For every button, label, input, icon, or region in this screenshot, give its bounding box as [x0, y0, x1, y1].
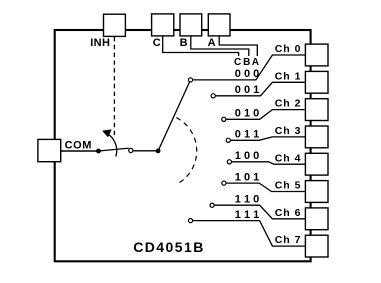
svg-text:A: A: [252, 57, 259, 68]
contact circle channel 7: [188, 219, 192, 223]
contact circle channel 5: [222, 181, 226, 185]
svg-text:1 0 0: 1 0 0: [235, 150, 259, 162]
svg-text:B: B: [180, 37, 188, 49]
wire channel 0: [193, 55, 306, 80]
contact circle channel 2: [222, 117, 226, 121]
svg-text:B: B: [243, 57, 250, 68]
terminal box A: [208, 14, 230, 36]
svg-text:Ch 7: Ch 7: [275, 234, 302, 246]
wire channel 2: [226, 110, 306, 120]
svg-text:Ch 2: Ch 2: [275, 98, 302, 110]
wire channel 7: [193, 221, 306, 247]
svg-text:C: C: [234, 57, 241, 68]
terminal box COM: [38, 139, 61, 161]
contact circle channel 1: [211, 94, 215, 98]
svg-text:0 0 0: 0 0 0: [235, 68, 259, 80]
terminal box channel 2: [305, 99, 328, 121]
svg-text:0 1 0: 0 1 0: [235, 108, 259, 120]
terminal box channel 7: [305, 235, 328, 257]
svg-text:Ch 1: Ch 1: [275, 70, 302, 82]
junction dot COM: [96, 149, 101, 154]
svg-text:INH: INH: [90, 37, 110, 49]
svg-text:Ch 5: Ch 5: [275, 180, 302, 192]
terminal box B: [180, 14, 202, 36]
svg-text:0 1 1: 0 1 1: [235, 129, 259, 141]
terminal box channel 3: [305, 126, 328, 148]
wire channel 4: [232, 162, 306, 164]
INH control dashed line: [113, 37, 115, 136]
IC body outline CD4051B: [55, 30, 311, 261]
svg-text:1 1 1: 1 1 1: [235, 209, 259, 221]
contact circle channel 0: [188, 78, 192, 82]
inhibit actuation arrow arc: [104, 132, 117, 156]
contact circle channel 6: [210, 203, 214, 207]
svg-text:Ch 3: Ch 3: [275, 125, 302, 137]
wire contact to pivot: [133, 150, 158, 152]
svg-text:Ch 4: Ch 4: [275, 152, 302, 164]
wire channel 1: [215, 82, 305, 96]
wire A (from pin A box down and right to CBA column): [219, 36, 257, 56]
wire COM (box to junction): [61, 150, 99, 152]
svg-text:CD4051B: CD4051B: [133, 239, 205, 255]
svg-text:1 0 1: 1 0 1: [235, 171, 259, 183]
wire channel 5: [226, 183, 305, 191]
wire C (from pin C box down and right to CBA column): [163, 36, 239, 56]
svg-text:C: C: [153, 37, 161, 49]
svg-text:COM: COM: [65, 140, 92, 152]
svg-text:A: A: [208, 37, 216, 49]
contact circle channel 3: [226, 138, 230, 142]
contact circle channel 4: [227, 160, 231, 164]
wire channel 6: [214, 205, 305, 219]
svg-text:Ch 6: Ch 6: [275, 207, 302, 219]
open contact circle (inhibit switch): [129, 148, 133, 152]
wire channel 3: [230, 137, 305, 140]
terminal box INH: [104, 14, 126, 36]
wiper arm: [158, 82, 190, 151]
terminal box channel 4: [305, 153, 328, 175]
terminal box channel 1: [305, 71, 328, 93]
terminal box channel 6: [305, 208, 328, 230]
terminal box channel 5: [305, 181, 328, 203]
wire B (from pin B box down and right to CBA column): [191, 36, 249, 56]
svg-text:Ch 0: Ch 0: [275, 43, 302, 55]
pivot junction dot: [156, 149, 161, 154]
terminal box C: [152, 14, 174, 36]
wiper rotation dashed arc: [176, 118, 196, 185]
switch blade (inhibit contact): [99, 148, 129, 151]
inhibit arrow head: [103, 130, 112, 137]
svg-text:1 1 0: 1 1 0: [235, 193, 259, 205]
terminal box channel 0: [305, 44, 328, 66]
svg-text:0 0 1: 0 0 1: [235, 84, 259, 96]
